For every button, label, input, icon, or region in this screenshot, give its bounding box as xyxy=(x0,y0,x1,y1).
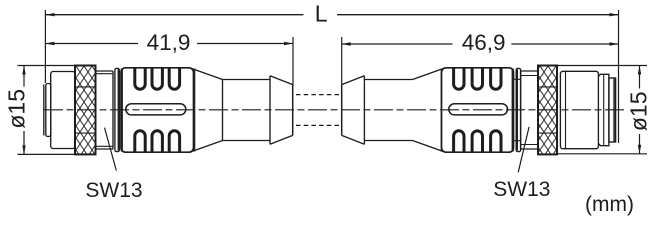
right bellows top groove 3 xyxy=(491,68,501,89)
left ring shade edge xyxy=(118,70,120,151)
right cone bottom xyxy=(413,141,445,152)
dimension 46,9 left arrow xyxy=(342,42,351,45)
right boot end face xyxy=(341,85,343,136)
right bellows bottom groove 1 xyxy=(454,131,464,152)
left hex inner lines xyxy=(96,74,114,147)
right boot top xyxy=(364,79,412,81)
svg-text:ø15: ø15 xyxy=(4,89,30,129)
right boot lip bottom xyxy=(342,135,365,144)
left dia15 down arrow xyxy=(22,145,25,154)
svg-text:46,9: 46,9 xyxy=(462,30,506,55)
right bellows body xyxy=(442,68,514,152)
svg-text:(mm): (mm) xyxy=(585,193,634,216)
right body inner line xyxy=(565,71,567,148)
left SW13 leader xyxy=(105,128,117,171)
right SW13 leader xyxy=(518,127,529,173)
right bellows right shade edge xyxy=(512,69,514,152)
left knurl section lines xyxy=(75,87,96,133)
right mid section xyxy=(598,74,609,145)
left bellows bottom groove 1 xyxy=(135,131,145,152)
dimension L left arrow xyxy=(46,13,55,16)
dimension 46,9 line xyxy=(342,43,619,45)
right bellows bottom groove 2 xyxy=(472,131,482,152)
right hex inner lines xyxy=(521,76,538,145)
left bellows body xyxy=(121,68,194,152)
svg-text:41,9: 41,9 xyxy=(147,30,191,55)
svg-text:ø15: ø15 xyxy=(626,91,652,131)
left connector hex SW13 xyxy=(96,71,114,149)
left bellows bottom groove 2 xyxy=(152,131,162,152)
left dia15 ticks xyxy=(18,66,76,155)
right neck lines xyxy=(514,79,521,140)
right knurl section lines xyxy=(538,87,557,133)
cable dashed top xyxy=(296,94,339,96)
right bellows top groove 2 xyxy=(472,68,482,89)
center line xyxy=(44,109,626,111)
left connector body xyxy=(51,72,75,149)
left connector front face xyxy=(43,85,45,136)
right ring shade edge xyxy=(516,70,518,151)
right bellows slot xyxy=(449,104,508,115)
left ring xyxy=(115,68,119,151)
right bellows bottom groove 3 xyxy=(491,131,501,152)
right dia15 down arrow xyxy=(638,145,641,154)
right hex SW13 xyxy=(521,71,538,149)
extension line left cone tip xyxy=(292,37,294,85)
right cone top xyxy=(413,68,445,79)
svg-text:SW13: SW13 xyxy=(85,179,142,202)
left bellows top groove 3 xyxy=(169,68,179,89)
right boot bottom xyxy=(364,140,412,142)
left dia15 dimension line xyxy=(23,66,25,155)
left bellows top groove 2 xyxy=(152,68,162,89)
right boot lip top xyxy=(342,76,365,144)
extension line right boot tip xyxy=(341,37,343,85)
left connector front lip xyxy=(46,84,51,137)
dimension L right arrow xyxy=(610,13,619,16)
dimension 46,9 right arrow xyxy=(610,42,619,45)
right tip end face xyxy=(614,78,616,142)
right bellows top groove 1 xyxy=(454,68,464,89)
left boot lip top xyxy=(270,76,293,144)
right mid section line xyxy=(603,74,605,145)
left dia15 up arrow xyxy=(22,66,25,75)
right knurl xyxy=(538,66,557,155)
dimension 41,9 line xyxy=(45,43,293,45)
right bellows left face xyxy=(440,69,442,152)
dimension 41,9 right arrow xyxy=(284,42,293,45)
svg-text:SW13: SW13 xyxy=(493,178,550,201)
left cone top xyxy=(191,68,223,79)
left bellows right face xyxy=(194,69,196,152)
cable dashed bottom xyxy=(296,124,339,126)
left bellows bottom groove 3 xyxy=(169,131,179,152)
right tip lines xyxy=(613,78,615,142)
left boot end face xyxy=(292,85,294,136)
right dia15 up arrow xyxy=(638,66,641,75)
right ring xyxy=(516,68,520,151)
dimension L line xyxy=(46,14,619,16)
right dia15 dimension line xyxy=(639,66,641,154)
left cone end vertical xyxy=(222,80,224,141)
extension line right end xyxy=(618,10,620,143)
left connector knurl xyxy=(75,66,96,155)
left boot lip bottom xyxy=(270,135,293,144)
right tip section xyxy=(609,78,616,142)
svg-text:L: L xyxy=(315,1,328,27)
extension line left (front face) xyxy=(44,10,46,83)
dimension 41,9 left arrow xyxy=(45,42,54,45)
left bellows left shade edge xyxy=(121,69,123,152)
left cone bottom xyxy=(191,141,223,152)
left boot top xyxy=(223,79,271,81)
left boot bottom xyxy=(223,140,271,142)
right body xyxy=(560,71,598,148)
right dia15 ticks xyxy=(557,66,647,154)
left bellows slot xyxy=(126,104,186,115)
left bellows top groove 1 xyxy=(135,68,145,89)
